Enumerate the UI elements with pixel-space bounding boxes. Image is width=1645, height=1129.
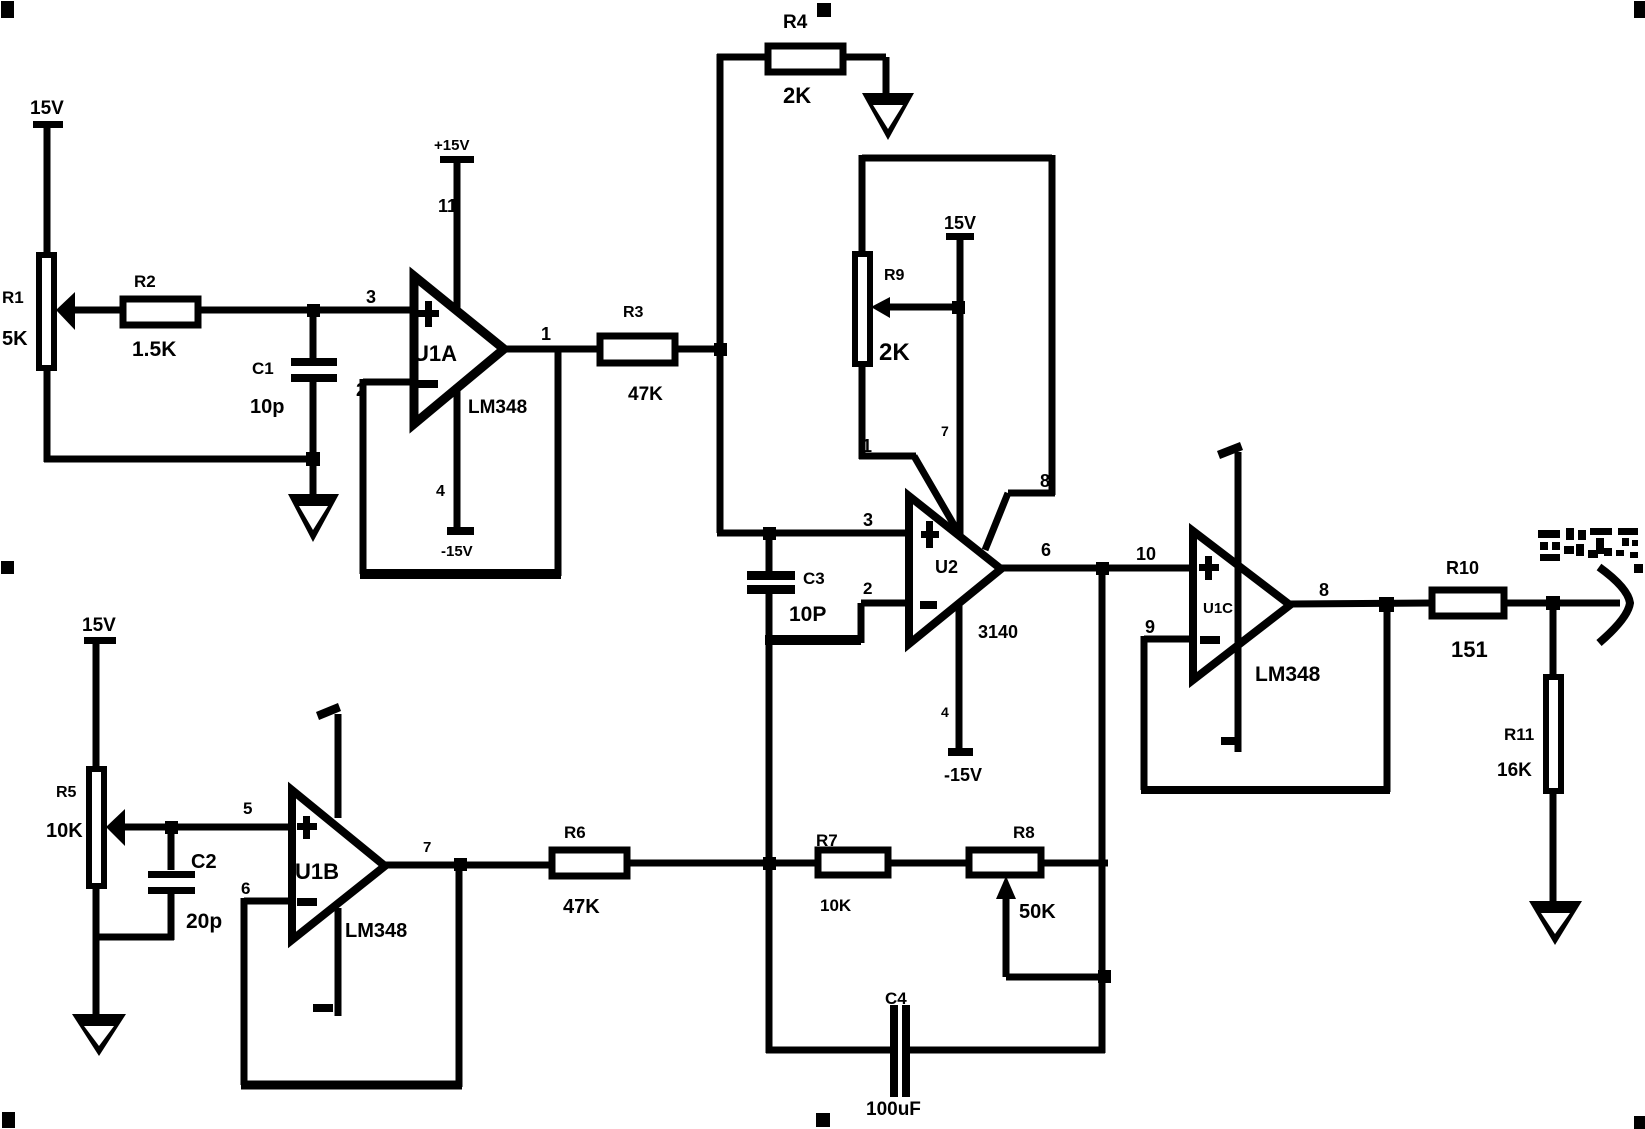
svg-text:50K: 50K	[1019, 901, 1056, 923]
U2 output wire	[1001, 565, 1196, 572]
resistor R6	[552, 823, 627, 918]
svg-text:6: 6	[241, 879, 250, 898]
svg-text:5: 5	[243, 799, 252, 818]
U1B feedback wire	[241, 865, 462, 1087]
U1A output wire pin 1	[504, 324, 600, 349]
resistor R2	[123, 272, 198, 361]
U3 output wire pin 8	[1290, 580, 1432, 604]
svg-text:-15V: -15V	[944, 765, 982, 785]
svg-text:R11: R11	[1504, 725, 1534, 744]
svg-text:11: 11	[438, 196, 457, 216]
U3 inverting input wire	[1144, 636, 1193, 643]
svg-text:15V: 15V	[30, 98, 64, 119]
capacitor C4	[766, 989, 1105, 1120]
op-amp U3	[1193, 531, 1321, 686]
node junction R3 output	[714, 343, 727, 356]
svg-text:20p: 20p	[186, 910, 222, 933]
wire R3 to riser	[675, 346, 723, 353]
svg-text:R9: R9	[884, 267, 905, 284]
wire R1 bottom to C1 bottom	[44, 368, 316, 462]
svg-text:R5: R5	[56, 784, 77, 801]
U2 V- rail	[941, 604, 982, 785]
wire R2 to U1A plus input	[198, 307, 414, 314]
svg-text:4: 4	[941, 704, 949, 720]
svg-text:4: 4	[436, 483, 445, 500]
capacitor C3	[747, 533, 826, 644]
svg-text:-15V: -15V	[441, 543, 473, 560]
U1A inverting input wire	[363, 379, 414, 386]
wire R5 bottom to C2 bottom	[93, 886, 174, 1017]
svg-text:10K: 10K	[820, 896, 852, 915]
op-amp U1B	[292, 790, 407, 942]
node junction U2 output	[1096, 562, 1109, 575]
ground (R11)	[1529, 901, 1582, 945]
svg-text:8: 8	[1319, 580, 1329, 600]
svg-text:15V: 15V	[944, 213, 976, 233]
svg-text:R7: R7	[816, 831, 838, 850]
wire R11 to ground	[1550, 791, 1557, 904]
resistor R3	[600, 304, 675, 405]
capacitor C1	[250, 310, 337, 461]
svg-text:16K: 16K	[1497, 760, 1532, 781]
U1A V+ rail	[434, 137, 474, 310]
op-amp U2	[909, 496, 1018, 644]
svg-text:47K: 47K	[628, 384, 663, 405]
U1B output wire pin 7	[385, 839, 552, 865]
wire top run to R4	[717, 54, 768, 61]
potentiometer R9	[855, 254, 910, 366]
wire R7 to R8	[888, 860, 969, 867]
wire R6 to R7	[627, 860, 818, 867]
svg-text:LM348: LM348	[1255, 663, 1321, 686]
wire to U2 plus input	[717, 530, 909, 537]
svg-text:100uF: 100uF	[866, 1099, 921, 1120]
node junction C3 top	[763, 527, 776, 540]
supply terminal 15V bottom-left	[82, 615, 116, 770]
svg-text:C4: C4	[885, 989, 907, 1008]
svg-text:2: 2	[863, 579, 872, 598]
feedback box left wire upper	[859, 155, 866, 256]
feedback box right wire	[1049, 155, 1056, 495]
svg-text:9: 9	[1145, 617, 1155, 637]
svg-text:10P: 10P	[789, 603, 826, 626]
svg-text:3140: 3140	[978, 622, 1018, 642]
svg-text:R3: R3	[623, 304, 644, 321]
svg-text:2K: 2K	[879, 339, 910, 366]
node junction C1 top	[307, 304, 320, 317]
node junction U1B output	[454, 858, 467, 871]
op-amp U1A	[413, 276, 527, 424]
wire C3 bottom to U2 minus input	[765, 603, 909, 643]
svg-text:10K: 10K	[46, 820, 83, 842]
wire R9 wiper to 15V rail	[887, 304, 963, 311]
svg-text:LM348: LM348	[468, 397, 527, 418]
capacitor C2	[148, 827, 222, 940]
svg-text:1: 1	[541, 324, 551, 344]
U3 feedback wire	[1141, 605, 1390, 792]
svg-text:3: 3	[366, 287, 376, 307]
svg-text:LM348: LM348	[345, 920, 407, 942]
svg-text:10: 10	[1136, 544, 1156, 564]
svg-text:U2: U2	[935, 557, 958, 577]
svg-text:8: 8	[1040, 471, 1050, 491]
svg-text:R4: R4	[783, 12, 808, 33]
svg-text:5K: 5K	[2, 328, 28, 350]
svg-text:C1: C1	[252, 359, 274, 378]
wire box bottom to U2 pin1	[859, 456, 961, 537]
svg-text:R2: R2	[134, 272, 156, 291]
svg-text:U1A: U1A	[413, 341, 457, 366]
wire R8 wiper to rail	[1006, 974, 1108, 981]
svg-text:2K: 2K	[783, 83, 811, 108]
resistor R10	[1432, 558, 1504, 662]
node junction wiper rail	[1098, 970, 1111, 983]
resistor R11	[1497, 603, 1561, 791]
wire R8 to vertical rail	[1041, 860, 1108, 867]
U1B inverting input wire	[244, 898, 292, 905]
U3 V+ rail	[1217, 442, 1243, 752]
wire R10 to output arrow	[1504, 600, 1620, 607]
potentiometer R5	[46, 769, 125, 886]
svg-text:C3: C3	[803, 569, 825, 588]
output arrow	[1599, 567, 1630, 643]
feedback network box top wire	[862, 155, 1052, 162]
svg-text:15V: 15V	[82, 615, 116, 636]
supply terminal 15V top-left	[30, 98, 64, 257]
potentiometer R8	[969, 823, 1056, 977]
wire R5 wiper to U1B plus input	[122, 824, 292, 831]
node junction wiper rail	[952, 301, 965, 314]
wire box right to U2 pin8	[985, 493, 1055, 550]
ground (R5)	[72, 1014, 126, 1056]
node junction mid chain	[763, 857, 776, 870]
wire C3 node down to bottom run	[766, 640, 773, 1053]
node junction U3 feedback output	[1379, 597, 1394, 612]
svg-text:R8: R8	[1013, 823, 1035, 842]
svg-text:7: 7	[423, 839, 431, 856]
supply terminal 15V middle	[944, 213, 976, 537]
svg-text:151: 151	[1451, 637, 1488, 662]
svg-text:+15V: +15V	[434, 137, 469, 154]
potentiometer R1	[2, 255, 75, 368]
resistor R7	[816, 831, 888, 915]
U1B V+ stub	[316, 703, 341, 818]
feedback box left wire lower	[859, 364, 866, 459]
ground (C1)	[288, 459, 339, 542]
node junction C1 bottom	[306, 452, 320, 466]
svg-text:U1B: U1B	[295, 859, 339, 884]
U1A V- rail	[436, 385, 474, 560]
resistor R4	[768, 12, 843, 108]
wire riser vertical	[717, 54, 724, 533]
svg-text:U1C: U1C	[1203, 600, 1233, 617]
svg-text:R10: R10	[1446, 558, 1479, 578]
svg-text:1.5K: 1.5K	[132, 338, 176, 361]
svg-text:R6: R6	[564, 823, 586, 842]
svg-text:10p: 10p	[250, 396, 284, 418]
node junction output	[1546, 596, 1560, 610]
svg-text:6: 6	[1041, 540, 1051, 560]
ground (R4)	[862, 93, 914, 140]
wire R4 to ground	[843, 57, 886, 97]
node junction C2 top	[165, 821, 178, 834]
svg-text:3: 3	[863, 510, 873, 530]
svg-text:47K: 47K	[563, 896, 600, 918]
wire wiper R1 to R2	[71, 307, 123, 314]
svg-text:C2: C2	[191, 851, 217, 873]
wire vertical from U2 output down	[1099, 568, 1106, 1053]
U1A feedback wire	[360, 349, 561, 576]
output label text blob	[1538, 528, 1643, 573]
svg-text:7: 7	[941, 423, 949, 439]
U1B V- stub	[313, 908, 338, 1016]
svg-text:R1: R1	[2, 288, 24, 307]
